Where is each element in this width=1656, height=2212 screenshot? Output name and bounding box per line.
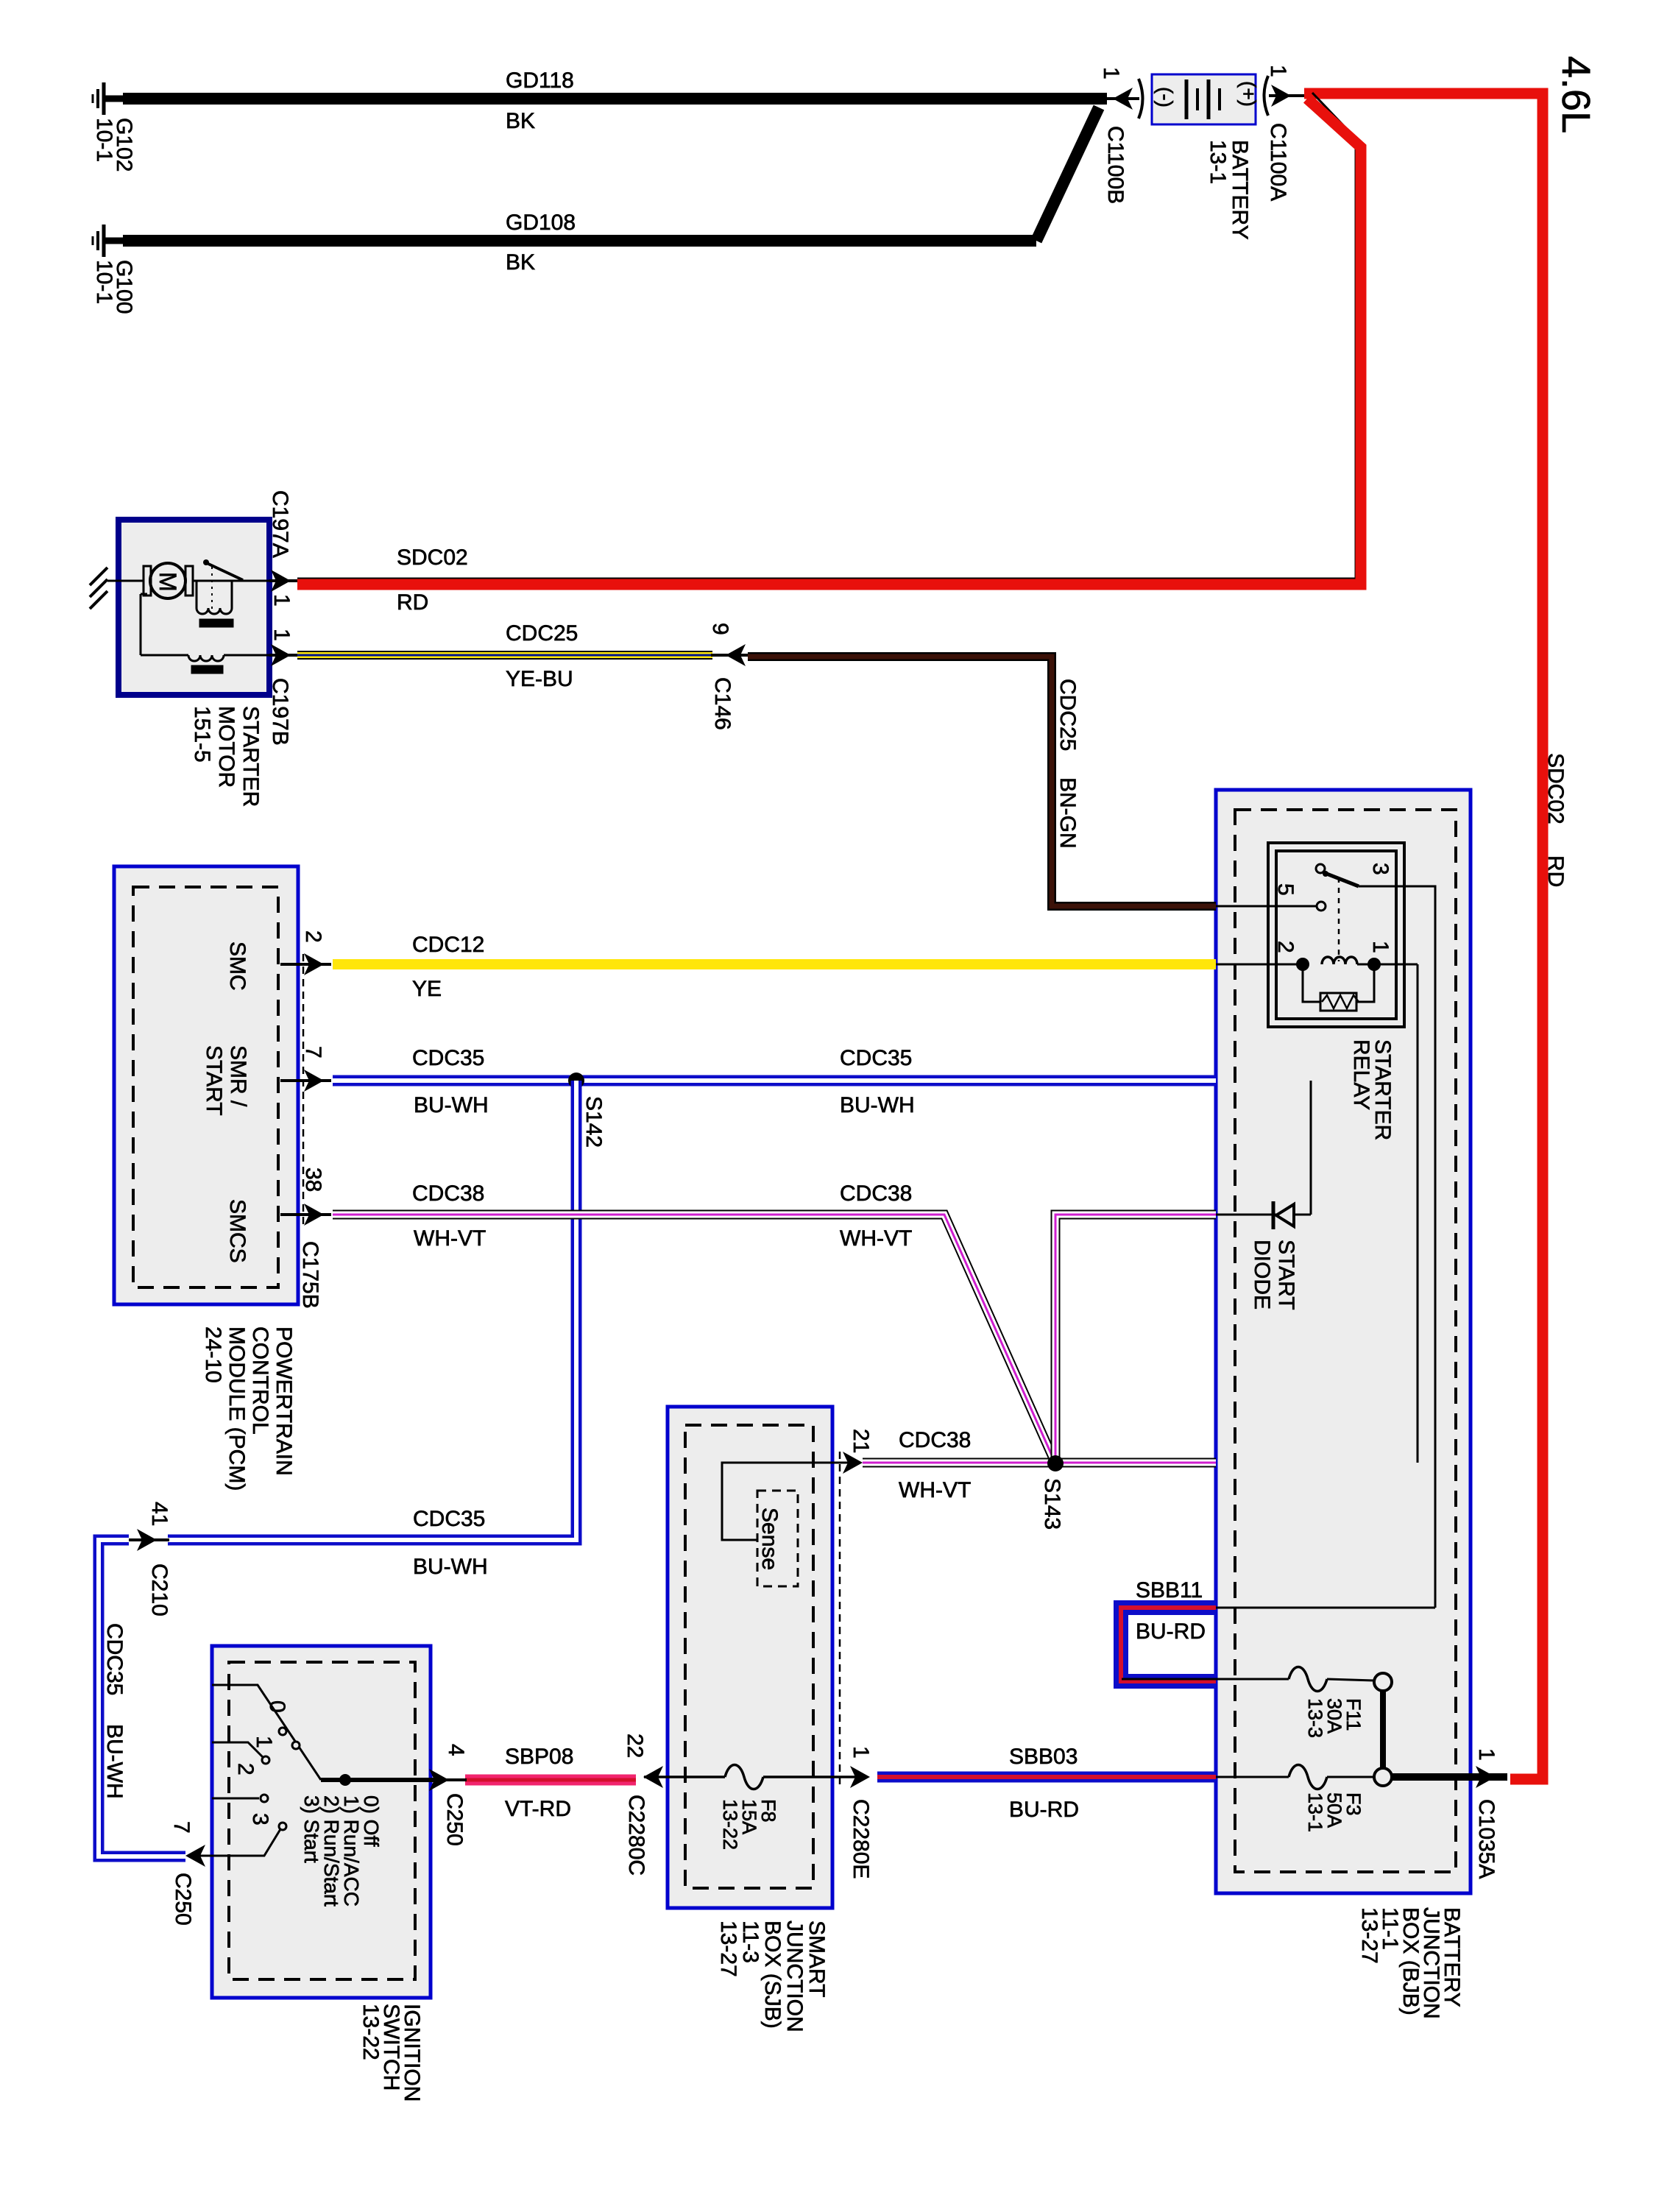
svg-text:7: 7 (169, 1821, 194, 1834)
connector C146 (711, 654, 748, 657)
svg-text:1: 1 (1266, 65, 1290, 77)
svg-text:CDC35: CDC35 (840, 1046, 912, 1070)
svg-text:1: 1 (269, 594, 294, 607)
svg-text:(+): (+) (1237, 81, 1260, 107)
SJB sense wire (722, 1463, 860, 1540)
fuse F3 50A terminal (1374, 1768, 1392, 1786)
svg-text:GD118: GD118 (506, 68, 574, 93)
wire CDC38 WH-VT SJB pin21 through S143 to BJB (863, 1458, 1216, 1468)
connector C250 pin 7 (185, 1845, 205, 1867)
svg-text:WH-VT: WH-VT (899, 1478, 971, 1502)
starter relay pin 3 wire (1359, 886, 1435, 1608)
connector C1035A (1476, 1766, 1496, 1788)
ground G102 (102, 82, 106, 115)
svg-text:22: 22 (623, 1734, 647, 1758)
svg-text:VT-RD: VT-RD (505, 1797, 571, 1821)
PCM pin 38 (280, 1213, 331, 1216)
smart junction box (SJB) (668, 1407, 832, 1908)
svg-text:START: START (1274, 1240, 1298, 1310)
svg-text:BU-RD: BU-RD (1009, 1798, 1079, 1822)
svg-text:BK: BK (506, 250, 535, 275)
svg-text:C197B: C197B (268, 678, 292, 746)
svg-text:MODULE (PCM): MODULE (PCM) (224, 1326, 249, 1491)
SJB pin 21 connector (843, 1452, 863, 1474)
ignition switch contact 1 (212, 1742, 263, 1758)
svg-text:MOTOR: MOTOR (214, 706, 238, 788)
svg-text:13-3: 13-3 (1304, 1698, 1326, 1738)
SJB inner dashed box (685, 1425, 813, 1888)
svg-text:1: 1 (269, 629, 294, 641)
svg-text:1: 1 (849, 1746, 873, 1759)
svg-text:JUNCTION: JUNCTION (782, 1921, 807, 2032)
svg-text:SBP08: SBP08 (505, 1745, 573, 1769)
svg-text:BK: BK (506, 109, 535, 133)
PCM pin 2 (280, 963, 331, 966)
svg-text:CDC38: CDC38 (899, 1428, 971, 1452)
connector C197A (269, 579, 297, 582)
svg-text:2: 2 (233, 1763, 258, 1775)
wire CDC12 YE (333, 959, 1216, 969)
ignition switch contact 3 (279, 1823, 286, 1830)
wire SBB03 BU-RD (877, 1772, 1216, 1783)
svg-text:38: 38 (301, 1167, 325, 1192)
svg-text:M: M (155, 572, 181, 592)
svg-text:5: 5 (1273, 883, 1298, 896)
svg-text:13-27: 13-27 (1357, 1907, 1381, 1964)
svg-text:10-1: 10-1 (92, 118, 116, 162)
svg-text:CDC25: CDC25 (1055, 679, 1080, 751)
BJB bus between fuses (1380, 1691, 1386, 1769)
svg-text:SDC02: SDC02 (1543, 753, 1568, 824)
wire CDC25 YE-BU (297, 651, 712, 660)
battery box outline (1152, 74, 1256, 124)
wire CDC38 WH-VT S143 up and to BJB start diode (1055, 1215, 1216, 1463)
svg-text:START: START (202, 1045, 226, 1116)
svg-text:C175B: C175B (298, 1241, 322, 1309)
svg-text:41: 41 (147, 1502, 171, 1526)
svg-text:CDC35: CDC35 (413, 1507, 485, 1531)
svg-text:7: 7 (301, 1046, 325, 1059)
svg-text:1: 1 (1474, 1748, 1498, 1761)
PCM inner dashed box (133, 887, 278, 1287)
starter relay parallel resistor (1303, 964, 1320, 1002)
svg-text:C2280E: C2280E (849, 1799, 873, 1879)
SJB connector dashed line C2280 (839, 1452, 841, 1787)
connector C1100B (1113, 88, 1133, 110)
starter relay pin 5 (1216, 905, 1317, 908)
svg-text:BU-WH: BU-WH (413, 1555, 488, 1579)
SJB sense dashed box (757, 1491, 798, 1586)
svg-text:BU-RD: BU-RD (1136, 1619, 1206, 1644)
starter motor M internals (118, 580, 144, 582)
wire SDC02 RD battery to BJB fuse F3 (1304, 93, 1543, 1779)
wire SBB11 BU-RD loop (1121, 1608, 1216, 1681)
starter relay pin 1 wire down to CDC38 (1417, 964, 1419, 1463)
connector C1100A (1264, 76, 1269, 116)
svg-text:CDC25: CDC25 (506, 621, 578, 646)
svg-text:1: 1 (1368, 941, 1393, 953)
wire GD118 BK (123, 93, 1107, 105)
svg-text:3) Start: 3) Start (300, 1795, 323, 1863)
svg-text:SMC: SMC (225, 941, 250, 991)
svg-text:CDC38: CDC38 (840, 1181, 912, 1206)
connector C250 pin 4 (429, 1769, 449, 1791)
splice S143 (1047, 1455, 1064, 1471)
ignition switch box (212, 1646, 431, 1998)
svg-text:SMART: SMART (804, 1921, 829, 1997)
wire CDC35 BU-WH S142 down to C210 (168, 1081, 576, 1540)
svg-text:CONTROL: CONTROL (248, 1326, 272, 1435)
svg-text:YE: YE (412, 977, 442, 1001)
chassis ground at starter motor (107, 580, 118, 582)
svg-text:4: 4 (444, 1744, 468, 1756)
svg-text:13-1: 13-1 (1304, 1792, 1326, 1832)
svg-text:C1100A: C1100A (1266, 123, 1290, 201)
svg-text:151-5: 151-5 (190, 706, 214, 763)
SJB pin 1 connector C2280E (850, 1766, 870, 1788)
svg-text:BATTERY: BATTERY (1228, 140, 1252, 240)
splice S142 (568, 1073, 584, 1089)
svg-text:C1100B: C1100B (1103, 126, 1128, 204)
fuse F11 30A terminal (1374, 1673, 1392, 1691)
svg-text:BU-WH: BU-WH (840, 1093, 915, 1117)
svg-text:RD: RD (397, 590, 428, 615)
starter relay coil (1216, 964, 1303, 966)
svg-text:BOX (SJB): BOX (SJB) (760, 1921, 785, 2029)
svg-text:SBB03: SBB03 (1009, 1745, 1078, 1769)
wire CDC35 BU-WH horizontal (333, 1075, 1216, 1086)
svg-text:3: 3 (248, 1813, 272, 1826)
svg-text:4.6L: 4.6L (1554, 56, 1598, 133)
ignition switch wiper to pin 4 (321, 1778, 434, 1782)
svg-text:C197A: C197A (268, 490, 292, 558)
svg-text:S143: S143 (1040, 1478, 1064, 1530)
wire SDC02 RD battery to starter motor (297, 93, 1356, 579)
BJB internal wire SBB03 to fuse F3 (1216, 1776, 1289, 1778)
BJB internal wire relay pin3 to SBB11 (1216, 1607, 1435, 1609)
wire junction to battery negative (1104, 97, 1139, 100)
PCM pin 7 (280, 1079, 331, 1082)
svg-text:GD108: GD108 (506, 211, 576, 235)
svg-text:CDC38: CDC38 (412, 1181, 484, 1206)
svg-text:RD: RD (1543, 855, 1568, 887)
svg-text:WH-VT: WH-VT (840, 1226, 912, 1251)
svg-text:C250: C250 (171, 1873, 195, 1926)
svg-text:C1035A: C1035A (1474, 1799, 1498, 1879)
svg-text:BU-WH: BU-WH (414, 1093, 489, 1117)
ignition switch contact 0 (212, 1685, 321, 1780)
ignition switch inner dashed box (229, 1662, 415, 1979)
svg-text:11-3: 11-3 (738, 1921, 762, 1963)
svg-text:10-1: 10-1 (92, 260, 116, 304)
svg-text:DIODE: DIODE (1250, 1240, 1274, 1310)
battery BATTERY 13-1 cells (1185, 79, 1189, 119)
svg-text:CDC35: CDC35 (412, 1046, 484, 1070)
svg-text:13-1: 13-1 (1206, 140, 1230, 184)
svg-text:YE-BU: YE-BU (506, 667, 573, 691)
svg-text:(-): (-) (1154, 87, 1177, 107)
wire SBP08 VT-RD (465, 1775, 636, 1786)
svg-text:13-22: 13-22 (358, 2004, 383, 2060)
SJB fuse F8 wire (644, 1775, 725, 1778)
wire CDC38 WH-VT PCM to S143 (333, 1215, 1055, 1463)
svg-text:24-10: 24-10 (201, 1326, 225, 1383)
starter relay switch (1316, 864, 1325, 873)
connector C197B (269, 654, 297, 657)
SJB pin 22 connector C2280C (643, 1766, 663, 1788)
svg-text:CDC35: CDC35 (102, 1623, 127, 1695)
starter motor box (STARTER MOTOR 151-5) (118, 520, 269, 695)
svg-text:S142: S142 (581, 1096, 606, 1148)
svg-text:SMR /: SMR / (226, 1045, 250, 1107)
svg-text:0: 0 (265, 1700, 289, 1713)
svg-text:1: 1 (1099, 67, 1123, 79)
svg-text:C2280C: C2280C (624, 1795, 648, 1876)
connector C210 (129, 1538, 169, 1541)
start diode (1216, 1214, 1311, 1216)
BJB inner dashed box (1235, 810, 1456, 1872)
svg-text:Sense: Sense (757, 1508, 782, 1570)
wire CDC25 BN-GN (748, 657, 1216, 906)
svg-text:2: 2 (301, 930, 325, 943)
ground G100 (102, 225, 106, 257)
svg-text:STARTER: STARTER (238, 706, 263, 807)
svg-text:C210: C210 (147, 1563, 171, 1616)
wire GD108 BK (123, 235, 1036, 247)
starter relay box (1268, 843, 1404, 1027)
BJB output wire to C1035A (1392, 1773, 1507, 1781)
wire CDC35 BU-WH C210 to ignition switch pin 7 (99, 1540, 185, 1856)
svg-text:BN-GN: BN-GN (1055, 777, 1080, 849)
BJB internal wire SBB11 to fuse F11 (1122, 1678, 1289, 1681)
svg-text:3: 3 (1368, 863, 1393, 875)
svg-text:13-27: 13-27 (716, 1921, 740, 1977)
svg-text:RELAY: RELAY (1349, 1039, 1373, 1110)
PCM box (POWERTRAIN CONTROL MODULE) (114, 866, 298, 1304)
svg-text:2: 2 (1273, 941, 1298, 953)
svg-text:9: 9 (708, 623, 732, 635)
svg-text:WH-VT: WH-VT (414, 1226, 486, 1251)
svg-text:SMCS: SMCS (225, 1199, 250, 1263)
svg-text:C250: C250 (442, 1793, 467, 1846)
svg-text:BU-WH: BU-WH (102, 1724, 127, 1799)
ignition switch contact 2 (212, 1798, 259, 1800)
svg-text:CDC12: CDC12 (412, 933, 484, 957)
svg-text:POWERTRAIN: POWERTRAIN (272, 1326, 296, 1476)
battery junction box (BJB) (1216, 790, 1471, 1893)
svg-text:C146: C146 (710, 677, 735, 730)
svg-text:SBB11: SBB11 (1136, 1578, 1203, 1603)
PCM connector dashed line C175B (302, 954, 305, 1225)
svg-text:21: 21 (849, 1429, 873, 1453)
svg-text:1: 1 (252, 1736, 276, 1748)
svg-text:13-22: 13-22 (719, 1799, 741, 1850)
svg-text:SDC02: SDC02 (397, 545, 468, 570)
